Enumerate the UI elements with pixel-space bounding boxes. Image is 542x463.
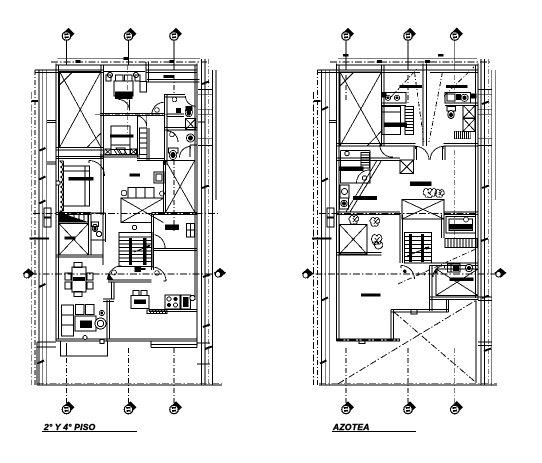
axis arrow right [495,268,507,278]
wall y255 [56,255,103,257]
top line 1 [58,58,201,60]
bedroom2 door arc [89,161,105,177]
bedroom2 headboard line [60,161,64,211]
unit divider wall left [382,66,385,146]
X box left-lower [59,224,89,256]
right side tick 5 [205,347,212,350]
grid tick E [377,60,382,63]
bath1 wc dark [185,106,192,117]
plants patch 2 [349,216,359,225]
bottom site line [319,384,497,386]
hall wall y158 [137,158,165,160]
terrace step mark [411,310,417,315]
roof slope diagonal C [398,249,477,285]
door jamb left [414,146,417,160]
room5 bar [361,294,381,297]
entry wall vertical [112,282,115,300]
hall knob [155,108,160,113]
ramp hatch strip [60,213,89,223]
living round chair [95,318,106,329]
grid stem B top [128,41,130,65]
living round chair inner [97,320,103,326]
grid tick B [124,57,129,60]
bed4 bar [449,278,473,281]
grid tick C [170,60,175,63]
right fence tick 3 [481,239,488,242]
wall x448 stub [446,300,448,312]
right fence line 2 [484,59,486,385]
grid tick E2 [425,60,430,63]
kitchen2 bar [340,166,364,171]
bedroom3 closet hatch right [131,149,137,154]
unit2 wc tank [447,107,456,112]
bed4 bottom wall [430,297,479,300]
grid bubble C top [170,28,183,41]
bath4 dark ring [465,264,472,271]
outer wall bottom [56,339,197,341]
mid room door arc [135,115,147,127]
unit1 slope line [415,72,425,142]
top dash-dot line [51,61,207,63]
grid stem F bottom [454,348,456,403]
site boundary dash-dot left [30,92,32,385]
bath divider vertical [164,95,167,165]
bed4 pivot dot 2 [434,270,437,273]
kitchen fridge [181,295,191,309]
grid tick D [343,54,349,57]
unit center wall [423,64,427,146]
lounge sofa [128,187,154,198]
unit2 X closet 1 [463,105,475,118]
kitchen step [151,341,197,348]
left fence line 2 [42,70,44,385]
door jamb right [443,146,446,160]
bedroom1 side table 2 [135,75,140,81]
grid stem D bottom [345,348,347,403]
bar mid [410,182,432,187]
fence tick r0 [314,100,321,102]
wall y212 [56,212,91,214]
bedroom1 bed body [114,81,133,96]
unit1 lintel bar [399,85,422,88]
right side line 3 [208,59,210,385]
bath top wall [147,80,200,82]
grid stem B bottom [128,348,130,403]
entry pivot wedge [107,273,113,280]
grid tick A [76,60,81,63]
interior wall vertical x101 [101,66,103,215]
unit2 slope line [429,72,443,142]
unit2 wc bowl [448,111,454,119]
double door arc left [416,146,429,160]
bath2 wc dark [169,148,179,160]
left fence line 2 [324,70,326,385]
desk room wall right [154,249,197,251]
bath2 knob [170,132,175,137]
desk room walls [151,212,197,270]
mid bath walls [91,213,106,265]
bottom wall dashes [337,339,401,341]
mid bath wc dark [93,226,96,231]
bed4 door arc 1 [401,266,415,280]
title left underline [42,431,137,433]
kitchen stove [165,295,180,309]
unit1 ceiling diagonal [391,69,417,97]
bedroom3 headboard [111,126,130,135]
kitchen2 counter [341,151,371,184]
right side connector [197,343,210,364]
terrace step mark2 [359,339,365,344]
desk bar [165,225,179,231]
bedroom1 door arc [119,100,130,111]
right jog c [198,138,212,145]
grid tick F [438,54,444,57]
terrace diagonal B [338,301,476,384]
right jog re [478,342,492,346]
unit2 wc bowl dark [449,112,453,117]
bedroom2 bed [64,166,90,206]
grid stem D top [345,41,347,65]
unit2 ceiling diagonal [444,67,474,96]
right jog b [198,109,212,114]
dining chair top [74,263,82,268]
bottom site line [37,384,222,386]
bottom porch [61,341,108,356]
bedroom2 bed lines [64,166,90,206]
desk room door arc [155,235,166,249]
right fence tick 1 [482,102,489,105]
right jog rc [478,138,492,145]
right jog a [198,89,212,94]
X small square [400,160,414,174]
living wall right [107,300,110,341]
right fence line 3 [487,59,489,385]
site boundary dash-dot left [313,92,315,385]
bath1 knob [172,97,177,102]
kitchen2 top wall [337,158,401,160]
outer wall right [476,64,478,300]
X box mid-right wall [163,160,165,212]
bedroom2 knob [56,181,60,185]
lounge end table 1 [121,190,127,196]
kitchen table band [134,300,146,305]
X box mid-right [166,160,195,212]
unit2 lintel bar [446,85,468,88]
right side tick 2 [202,186,209,189]
bedroom3 chair [116,148,125,154]
left fence line 0 [34,70,36,385]
double door arc right [430,146,444,160]
bottom wall left part [337,339,401,341]
dining table [72,267,86,292]
plants patch 3 [370,218,380,227]
entry jog [103,299,114,302]
dining chairs left [65,273,71,289]
fence gate box [44,208,51,227]
grid stem A top [66,41,68,65]
grid stem C bottom [173,348,175,403]
right fence line 5 [494,70,496,200]
staircase [119,232,152,266]
washer box 1 [340,185,349,198]
hall door arc kitchen [152,267,166,281]
right fence line 4 [491,70,493,385]
right side tick 1 [202,82,209,85]
wall right of Xbox [89,213,91,256]
bath3 tub [446,217,476,234]
grid stem C through hall [173,65,175,95]
plants patch 4 [372,235,383,250]
kitchen table [131,296,149,309]
fence top connector [318,70,337,73]
hall door knob [155,271,160,276]
bed4 room walls [430,263,479,266]
bedroom2 bed bar [69,177,94,180]
fence tick 0 [32,100,39,102]
bed4 door arc 2 [433,266,445,278]
fence tick 2 [39,201,46,204]
grid bubble B bottom [124,401,137,414]
void X box top-left [60,72,102,148]
living coffee table [75,316,96,331]
unit2 counter wall [445,103,478,105]
kitchen fridge dark [183,297,189,307]
dash-dot mid line [33,213,218,215]
living sofa [62,305,74,336]
fence tick r1 [322,107,329,110]
grid stem F inner top [454,65,456,103]
bath X box [186,119,196,130]
terrace diagonal A [393,312,475,383]
right jog rb [478,109,492,114]
desk cabinet [187,224,195,238]
wall y309 [391,310,449,312]
LEFT PLAN [23,28,227,432]
bath2 corner wall [190,145,197,157]
axis arrow left [23,269,35,279]
wall right of bedroom1 [146,62,148,82]
kitchen sink circle [190,295,195,300]
grid stem D inner [345,65,347,102]
outer wall left [56,64,59,341]
right side line 1 [201,59,203,385]
bottom site dashes [37,383,222,385]
window circle 2 [133,72,138,77]
fence tick r4 [322,298,329,301]
bedroom3 wall bottom [100,155,140,157]
fence gate box r [327,208,334,227]
right side tick 3 [203,275,210,278]
mid bath tank [92,222,99,227]
bath2 sink dark [187,134,195,142]
X box center [121,198,164,222]
plants patch 1b [435,190,444,198]
grid stem E top [407,41,409,65]
stair diagonal [350,160,382,212]
right side line 4 [211,70,213,385]
fence jog 1 [47,121,56,123]
unit2 sink counter [445,92,477,103]
dining chair bottom [74,292,82,297]
bedroom1 bed pillows [116,75,133,81]
left fence line 3 [46,70,48,385]
living knob [83,336,87,340]
fence tick 4 [39,284,46,287]
wall below X box [56,148,103,150]
bath3 walls [442,212,478,238]
mid wall dash overlay [95,114,167,116]
top dash-dot line [330,61,490,63]
bedroom3 closet hatch left [105,149,111,154]
mid wall y143.5 [337,144,479,147]
kitchen hatch strip [147,310,167,314]
outer wall right [195,64,197,341]
title right underline [332,431,416,433]
unit1 stair ladder [405,106,414,134]
grid bubble D bottom [342,401,355,414]
fence top connector [35,70,56,73]
stair bottom bar [134,268,145,270]
bed4 X closet [436,269,478,296]
bedroom2 headboard scallops [60,162,63,212]
right fence tick 2 [482,186,489,189]
closet shelves [140,128,147,154]
fence tick 5 [38,361,45,364]
grid stem E inner [407,65,409,103]
bath1 black fixture [176,108,181,113]
top line 1 [338,58,477,60]
mid bath sink [96,231,101,236]
bed4 left wall [430,266,433,312]
window circle 1 [107,72,112,77]
stairs hall wall [400,215,402,263]
right jog ra [478,89,492,94]
right side line 5 [215,70,217,200]
X box mid-left [340,225,368,255]
plants patch 1 [423,189,437,198]
right side line 2 [204,59,206,385]
bath4 shower rects [448,264,461,272]
right side tick 4 [203,325,210,328]
mid wall y114 [100,114,164,116]
kitchen2 comb strip [361,153,370,169]
bath1 door arc [186,96,197,107]
landing bar [353,196,377,200]
left fence line 1 [321,70,323,385]
left unit lower door arc [380,144,393,157]
fence jog 2 [47,162,56,164]
wall x146.8 [147,128,149,160]
dash-dot mid line [319,213,478,215]
axis arrow line [30,273,218,275]
bedroom1 desk [140,82,147,93]
outer wall left [337,64,340,341]
axis arrow line [303,273,500,275]
entry wall [108,280,152,282]
top wall [56,64,197,66]
entry black mark [135,267,142,272]
kitchen chairs top [133,291,147,296]
grid bubble E bottom [404,401,417,414]
fence bottom jog [37,342,56,385]
top wall inner face [337,70,479,72]
lounge armchair [154,172,164,183]
left fence line 0 [317,70,319,385]
left fence line 3 [328,70,330,385]
top window band [104,71,145,73]
dining chairs right [87,273,93,289]
lounge end table 2 [160,191,165,196]
grid bubble B top [124,28,137,41]
porch wall box [100,340,104,344]
axis arrow left [302,269,314,279]
bedroom3 bed body [111,138,130,150]
bath3 comb strip [445,239,477,248]
X box bar [65,237,76,240]
upper bath lintel bar [163,75,174,78]
living coffee table top [80,321,92,329]
bottom site dashes [319,383,497,385]
right fence tick 5 [484,349,491,352]
wall y252 [337,253,382,256]
closet column wall [137,116,139,157]
hall door arc [152,102,165,115]
stair knob [132,225,136,229]
grid bubble C bottom [170,401,183,414]
mid bath wc [92,224,98,231]
living chairs top [76,305,95,315]
stair diagonal 2 [346,160,377,212]
grid bubble D top [342,28,355,41]
bath2 arc [167,131,178,142]
top wall [337,64,479,66]
grid stem B through plan [127,65,129,135]
grid stem F top [454,41,456,65]
kitchen2 door arc [357,170,370,183]
bath mid wall [164,128,197,130]
grid bubble A top [62,28,74,41]
unit2 comb hatch [455,131,471,139]
grid stem E bottom [407,348,409,403]
grid bubble A bottom [62,401,74,414]
bath4 dark blobs [453,266,459,272]
RIGHT PLAN [302,28,507,432]
right jog d [198,121,205,123]
staircase unit2 [405,233,432,263]
fence tick r3 [312,238,332,240]
bedroom1 bed footboard [115,92,133,99]
fence tick 3 [30,238,50,240]
fence jog r1 [330,121,337,123]
dining table band [73,277,85,281]
terrace right edge [475,301,477,384]
unit1 bed [382,106,407,134]
fence tick r2 [322,179,329,182]
kitchen wall [149,310,197,312]
kitchen2 circle [345,151,349,155]
grid stem C top [173,41,175,65]
right fence tick 4 [482,296,489,299]
grid stem F inner [454,150,456,240]
bed4 dim text [418,273,426,276]
wall above bedroom2 [56,156,103,158]
top wall inner face [56,70,197,72]
unit1 sink counter [382,92,406,103]
bedroom1 side table [106,75,111,81]
grid stem C through plan [173,150,175,231]
void X box top-left [340,72,382,146]
bath1 part wall [167,114,184,116]
